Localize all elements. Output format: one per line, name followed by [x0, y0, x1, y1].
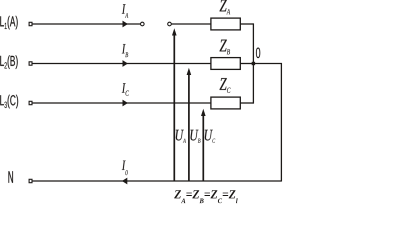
label ZC: [220, 78, 231, 93]
wire L1 right segment to ZA: [171, 23, 211, 25]
current arrow I0 pointing left: [122, 178, 127, 185]
terminal L3: [29, 101, 32, 104]
label UC: [205, 130, 215, 143]
label L1(A): [0, 16, 17, 30]
wire from node 0 right and down to N line: [253, 64, 281, 182]
wire L3: [33, 102, 211, 104]
label L2(B): [0, 55, 17, 69]
wire ZC right lead: [240, 102, 253, 104]
wire L2: [33, 63, 211, 65]
terminal N: [29, 179, 32, 182]
label UA: [176, 130, 186, 143]
wire ZA right lead: [240, 23, 253, 25]
resistor ZB: [211, 58, 240, 70]
resistor ZA: [211, 18, 240, 30]
voltage arrow UC head: [201, 109, 206, 116]
equation ZA=ZB=ZC=Zl: [174, 190, 237, 203]
voltage arrow UA stem: [173, 35, 175, 182]
terminal L2: [29, 62, 32, 65]
label node 0: [256, 48, 260, 59]
label UB: [190, 130, 200, 143]
terminal L1: [29, 22, 32, 25]
resistor ZC: [211, 97, 240, 109]
voltage arrow UA head: [172, 28, 177, 35]
wire ZB right lead: [240, 63, 253, 65]
label IA: [122, 4, 128, 17]
current arrow IC: [123, 100, 128, 107]
current arrow IA: [123, 21, 128, 28]
current arrow IB: [123, 60, 128, 67]
label ZA: [220, 0, 231, 14]
wire neutral rail vertical: [252, 23, 254, 103]
label IB: [122, 44, 128, 57]
label I0: [122, 161, 128, 176]
label L3(C): [0, 95, 18, 109]
voltage arrow UB stem: [188, 74, 190, 181]
switch contact right on L1: [168, 22, 172, 26]
wire N: [33, 180, 282, 182]
voltage arrow UB head: [187, 68, 192, 75]
label IC: [122, 83, 129, 96]
label N: [8, 171, 13, 183]
node 0 junction dot: [252, 62, 255, 65]
wire L1 left segment: [33, 23, 141, 25]
label ZB: [220, 40, 231, 55]
switch contact left on L1: [141, 22, 145, 26]
voltage arrow UC stem: [202, 115, 204, 181]
